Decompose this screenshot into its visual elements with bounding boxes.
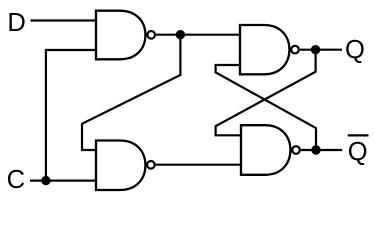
wire S node to U2 top input (Z bend) [82,35,180,150]
junction node on C line [41,176,50,185]
NAND gate U1 (top-left) [96,11,155,60]
wire C input line [30,180,97,182]
wire U2 output to U4 lower input [156,164,242,166]
NAND gate U3 (top-right) [240,25,299,74]
wire U4 output to Q-bar [301,149,342,151]
svg-text:D: D [7,9,25,37]
junction node S on U1 output [176,30,185,39]
svg-text:Q: Q [348,138,368,166]
NAND gate U2 (bottom-left) [96,141,155,191]
overline of Q-bar [348,134,369,136]
wire D to gate U1 top input [31,19,98,21]
junction node Q-bar [311,145,320,154]
wire Q feedback to U4 top input (crossover) [216,50,316,136]
junction node Q [311,45,320,54]
wire C branch to U1 lower input [46,50,97,181]
svg-text:C: C [7,166,25,194]
svg-text:Q: Q [345,36,365,64]
wire U3 output to Q [300,49,342,51]
wire Q-bar feedback to U3 lower input (crossover) [216,65,316,150]
NAND gate U4 (bottom-right) [241,125,300,175]
wire U1 output to U3 top input [156,34,241,36]
